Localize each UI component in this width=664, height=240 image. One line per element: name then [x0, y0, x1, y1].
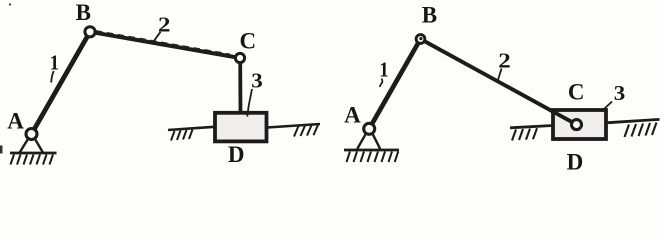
pivot A support triangle (left): [20, 139, 43, 152]
slider block D (left): [215, 113, 267, 142]
svg-text:1: 1: [379, 58, 389, 82]
pivot A support triangle (right): [357, 134, 380, 149]
svg-text:A: A: [344, 103, 361, 128]
scan mark left edge: [0, 146, 3, 154]
svg-text:B: B: [76, 0, 91, 25]
scan speck top-left: [9, 3, 11, 5]
hatching under right guide line: [294, 125, 318, 137]
guide line right of slider D (right): [606, 119, 660, 122]
leader tick for label 3 (left): [247, 89, 252, 117]
revolute joint A (right): [364, 123, 375, 134]
guide line left of slider D: [168, 127, 215, 130]
leader tick for label 1 (left): [51, 71, 54, 83]
leader tick for label 2 (left): [154, 32, 161, 41]
svg-text:3: 3: [614, 81, 626, 105]
svg-text:D: D: [228, 142, 245, 167]
link 1 (crank A-B, left): [32, 32, 91, 134]
slider block D (right): [553, 110, 606, 139]
revolute joint B (left): [85, 27, 95, 37]
link 2 double-stroke dashed top edge: [96, 31, 230, 54]
hatching under right guide line (right): [625, 123, 657, 138]
link 2 (coupler B-C, right): [421, 39, 577, 125]
pin joint C in slider (right): [572, 120, 582, 130]
pivot A base line (left): [10, 152, 57, 155]
hatching under left guide line (right): [512, 128, 537, 140]
link 2 (coupler B-C, left): [90, 32, 240, 58]
pivot A base line (right): [344, 149, 399, 152]
svg-text:1: 1: [50, 51, 60, 75]
svg-text:A: A: [7, 109, 24, 134]
pivot A hatching (left): [11, 155, 54, 165]
svg-text:D: D: [567, 150, 584, 175]
hatching under left guide line: [171, 130, 193, 141]
revolute joint A (left): [26, 129, 37, 140]
link 2 segment inside slider block (right): [552, 111, 577, 125]
leader tick for label 3 (right): [604, 102, 612, 110]
svg-text:C: C: [568, 80, 585, 105]
leader tick for label 2 (right): [498, 69, 502, 81]
link 1 (crank A-B, right): [369, 39, 420, 129]
revolute joint B (right): [416, 35, 425, 44]
svg-text:B: B: [422, 3, 437, 28]
svg-text:C: C: [239, 29, 256, 54]
guide line left of slider D (right): [510, 126, 553, 128]
leader tick for label 1 (right): [380, 79, 382, 88]
link 3 (C to slider, left): [238, 60, 242, 116]
guide line right of slider D: [267, 124, 320, 128]
pivot A hatching (right): [347, 152, 399, 163]
svg-text:3: 3: [251, 69, 263, 93]
joint B centre pin dot (right): [419, 37, 422, 40]
revolute joint C (left): [235, 53, 244, 62]
svg-text:2: 2: [498, 49, 511, 73]
